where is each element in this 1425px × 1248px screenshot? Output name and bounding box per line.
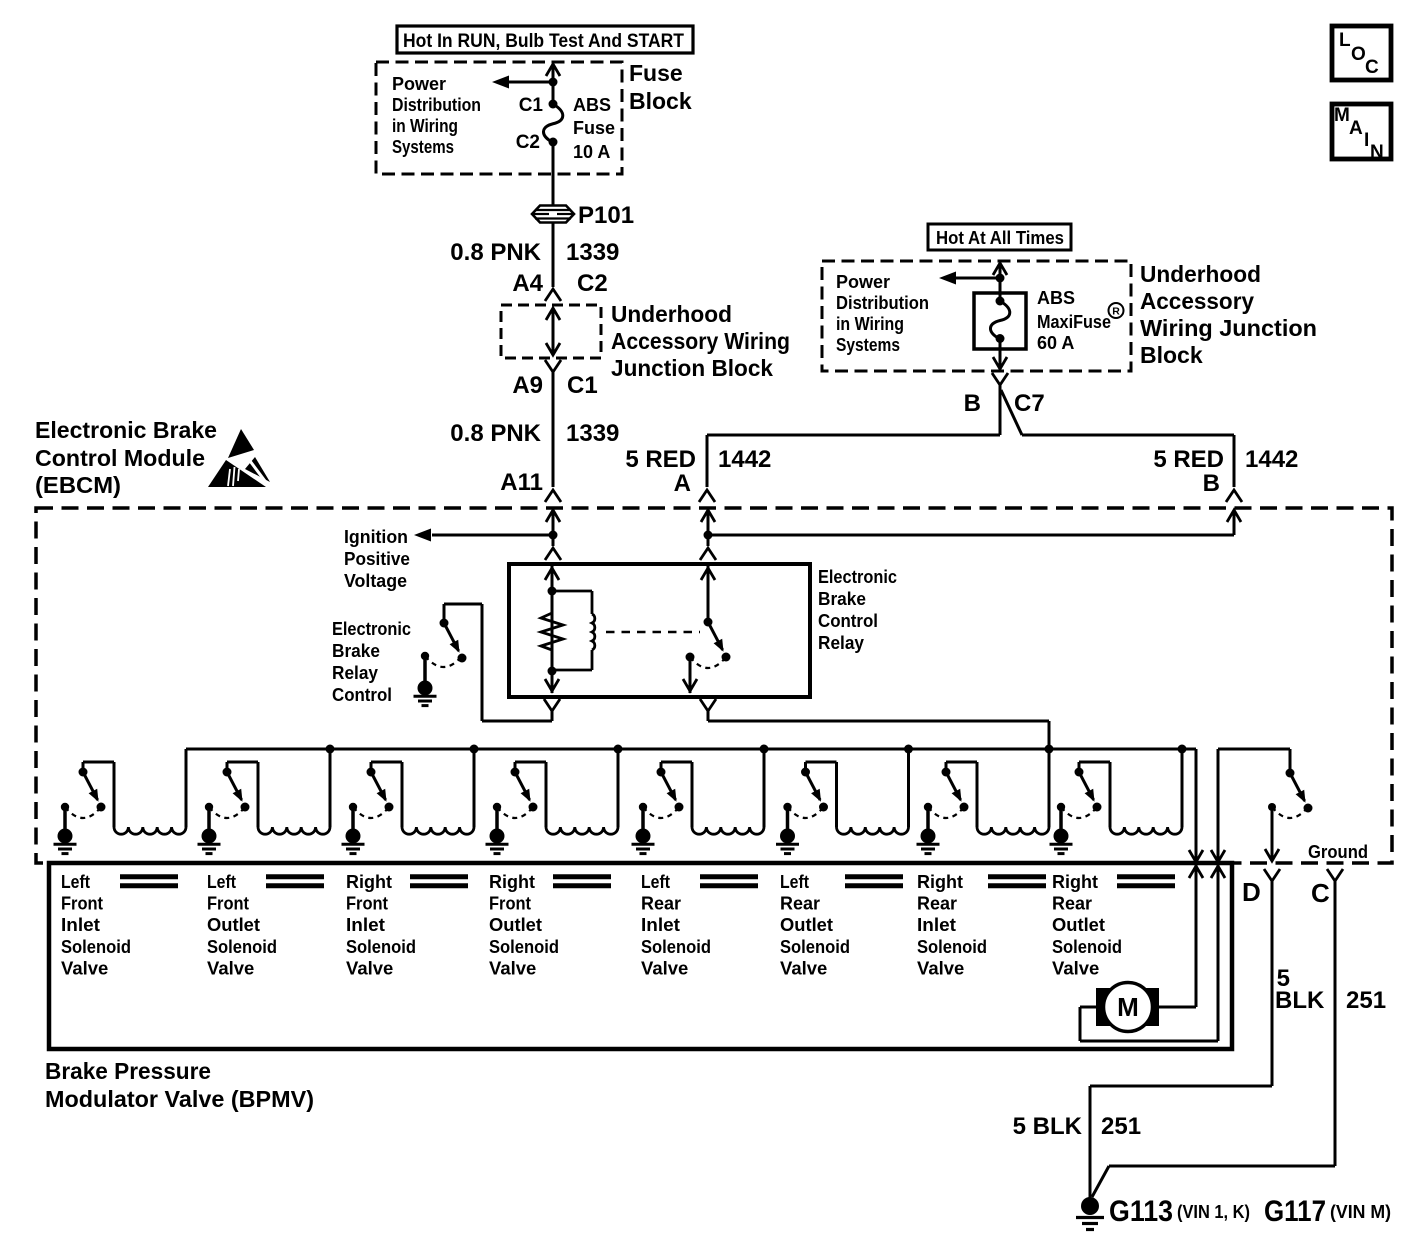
label: Underhood Accessory Wiring Junction Block — [1140, 261, 1317, 368]
wire: coil to driver switch — [661, 762, 692, 827]
svg-text:5 RED: 5 RED — [1153, 446, 1224, 473]
node: bus junction — [760, 745, 769, 754]
pin A9 / C1 labels — [512, 372, 597, 399]
solenoid valve driver: RF outlet — [486, 745, 623, 854]
svg-text:I: I — [1364, 130, 1369, 151]
svg-text:Fuse: Fuse — [629, 60, 683, 86]
svg-text:Systems: Systems — [836, 335, 900, 355]
pump motor relay switch — [1286, 769, 1295, 778]
svg-text:Relay: Relay — [332, 663, 378, 683]
solenoid coil — [546, 827, 618, 834]
node: coil top — [548, 587, 557, 596]
svg-text:Outlet: Outlet — [207, 914, 260, 935]
label: LR outlet solenoid valve — [780, 871, 850, 978]
svg-text:M: M — [1334, 105, 1350, 126]
value label: 5 RED 1442 (B) — [1153, 446, 1298, 473]
relay coil (parallel winding) — [552, 591, 595, 670]
svg-text:Rear: Rear — [917, 893, 957, 914]
driver switch — [942, 768, 951, 777]
connector: A4/C2 chevron — [545, 289, 561, 301]
dashed arc: solenoid actuation — [497, 807, 533, 818]
svg-text:Solenoid: Solenoid — [780, 936, 850, 957]
solenoid coil — [402, 827, 474, 834]
svg-text:Positive: Positive — [344, 549, 410, 569]
svg-text:Brake: Brake — [818, 589, 866, 609]
wire: coil drop — [763, 749, 766, 827]
svg-text:C1: C1 — [567, 372, 598, 399]
transistor switch: Electronic Brake Relay Control — [440, 619, 449, 628]
svg-text:N: N — [1370, 142, 1384, 163]
svg-text:A: A — [1349, 118, 1363, 139]
svg-text:Distribution: Distribution — [836, 293, 929, 313]
wire: relay coil feed — [545, 566, 559, 693]
wire: relay output to solenoid bus — [708, 711, 1049, 749]
fuse: ABS MaxiFuse 60 A — [990, 297, 1009, 344]
svg-text:Right: Right — [1052, 871, 1098, 892]
svg-text:P101: P101 — [578, 202, 634, 229]
svg-text:(VIN 1, K): (VIN 1, K) — [1177, 1202, 1250, 1222]
wire: coil to driver switch — [946, 762, 977, 827]
svg-text:M: M — [1117, 992, 1139, 1022]
svg-text:251: 251 — [1101, 1113, 1141, 1140]
label: Underhood Accessory Wiring Junction Block — [611, 301, 790, 381]
dashed arc: relay control — [425, 656, 462, 667]
ground: valve seat — [1057, 803, 1065, 811]
header box: Hot In RUN, Bulb Test And START — [397, 26, 693, 53]
hydraulic port symbol — [410, 877, 468, 886]
svg-text:ABS: ABS — [573, 95, 611, 115]
ground: valve seat — [924, 803, 932, 811]
EBCM dashed boundary box — [36, 508, 1392, 863]
node: relay output contact — [686, 653, 695, 662]
svg-text:Solenoid: Solenoid — [917, 936, 987, 957]
value label: 5 BLK 251 (C) — [1275, 965, 1386, 1014]
wire: motor leads — [1080, 1007, 1218, 1041]
svg-text:A11: A11 — [500, 469, 543, 496]
maxifuse box — [974, 293, 1026, 349]
wire: C2 to splice P101 — [552, 142, 555, 206]
wire: 0.8 PNK 1339 (junction block to EBCM A11) — [552, 372, 555, 487]
node: bus junction — [1045, 745, 1054, 754]
wire: pin D to ground G113 — [1090, 881, 1272, 1198]
svg-text:Right: Right — [346, 871, 392, 892]
wire: motor switch to pin D — [1265, 807, 1279, 861]
pin A4 / C2 labels — [512, 270, 607, 297]
label: RF outlet solenoid valve — [489, 871, 559, 978]
svg-text:Accessory: Accessory — [1140, 288, 1254, 314]
label: Power Distribution in Wiring Systems — [392, 74, 481, 157]
hydraulic port symbol — [700, 877, 758, 886]
value label: 0.8 PNK 1339 — [450, 239, 619, 266]
solenoid valve driver: LR outlet — [776, 745, 913, 854]
svg-text:Underhood: Underhood — [1140, 261, 1261, 287]
dashed arc: solenoid actuation — [788, 807, 824, 818]
pump motor M1 — [1096, 983, 1159, 1032]
wire: coil drop — [907, 749, 910, 827]
hydraulic port symbol — [845, 877, 903, 886]
svg-text:Front: Front — [346, 893, 388, 914]
dashed arc: motor switch — [1272, 807, 1308, 818]
svg-text:Inlet: Inlet — [917, 914, 956, 935]
svg-text:A9: A9 — [512, 372, 543, 399]
svg-text:Systems: Systems — [392, 137, 454, 157]
driver switch — [223, 768, 232, 777]
wire: 5 RED 1442 drop to pin B — [1233, 435, 1236, 487]
hydraulic port symbol — [553, 877, 611, 886]
connector: B/C7 chevron — [992, 373, 1008, 385]
wire: arrow to Ignition Positive Voltage — [414, 529, 553, 542]
svg-text:Outlet: Outlet — [489, 914, 542, 935]
wire: coil drop — [1048, 749, 1051, 827]
node: motor switch output — [1268, 803, 1276, 811]
dashed arc: solenoid actuation — [1061, 807, 1097, 818]
svg-text:G117: G117 — [1264, 1195, 1326, 1228]
label: Electronic Brake Control Relay — [818, 567, 897, 653]
svg-text:C: C — [1311, 878, 1330, 908]
solenoid valve driver: LF inlet — [54, 749, 187, 854]
connector below relay (output) — [700, 699, 716, 711]
wire: coil to driver switch — [515, 762, 546, 827]
wire: bus to pump motor (through BPMV case) — [1189, 749, 1203, 1007]
svg-text:Block: Block — [629, 88, 692, 114]
svg-text:Hot At All Times: Hot At All Times — [936, 228, 1064, 248]
svg-text:1442: 1442 — [1245, 446, 1298, 473]
svg-text:C2: C2 — [577, 270, 608, 297]
dashed arc: solenoid actuation — [353, 807, 389, 818]
solenoid valve driver: RR inlet — [917, 745, 1054, 854]
svg-text:Ignition: Ignition — [344, 527, 408, 547]
ground: valve seat — [639, 803, 647, 811]
solenoid valve driver: RF inlet — [342, 745, 479, 854]
solenoid valve driver: RR outlet — [1050, 745, 1187, 854]
wire: through junction block — [546, 308, 560, 355]
svg-text:Control: Control — [332, 685, 392, 705]
svg-text:Solenoid: Solenoid — [1052, 936, 1122, 957]
connector below relay (coil return) — [544, 699, 560, 711]
connector chevron above relay (left) — [545, 548, 561, 560]
wire: fuse block feed from header — [546, 64, 560, 104]
svg-text:D: D — [1242, 877, 1261, 907]
connector: pin B chevron — [1226, 490, 1242, 502]
svg-text:Front: Front — [489, 893, 531, 914]
label: Electronic Brake Relay Control — [332, 619, 411, 705]
ground: valve seat — [349, 803, 357, 811]
driver switch — [657, 768, 666, 777]
svg-text:Outlet: Outlet — [780, 914, 833, 935]
svg-text:1339: 1339 — [566, 239, 619, 266]
Underhood junction block dashed box (maxifuse) — [822, 261, 1131, 371]
dashed arc: solenoid actuation — [928, 807, 964, 818]
pin B / C7 labels — [964, 390, 1045, 417]
svg-text:Ground: Ground — [1308, 842, 1368, 862]
label: LF inlet solenoid valve — [61, 871, 131, 978]
ground G113/G117 — [1076, 1197, 1104, 1230]
wire: motor return (through BPMV case) — [1211, 749, 1290, 1041]
svg-text:BLK: BLK — [1275, 987, 1325, 1014]
driver switch — [367, 768, 376, 777]
wire: C7 split to A and B feeds — [707, 385, 1234, 435]
Underhood Accessory Wiring Junction Block (small dashed box) — [501, 305, 601, 358]
svg-text:Front: Front — [207, 893, 249, 914]
svg-text:Left: Left — [641, 871, 670, 892]
connector: pin C chevron — [1327, 869, 1343, 881]
wire: B feed into EBCM — [701, 510, 715, 546]
svg-text:Accessory Wiring: Accessory Wiring — [611, 328, 790, 354]
svg-text:251: 251 — [1346, 987, 1386, 1014]
solenoid valve driver: LR inlet — [632, 745, 769, 854]
connector: pin D chevron — [1264, 869, 1280, 881]
svg-text:Inlet: Inlet — [346, 914, 385, 935]
svg-text:Voltage: Voltage — [344, 571, 407, 591]
node: bus junction — [326, 745, 335, 754]
BPMV box: Brake Pressure Modulator Valve — [49, 863, 1232, 1049]
svg-text:1442: 1442 — [718, 446, 771, 473]
svg-text:Valve: Valve — [346, 957, 393, 978]
svg-text:Valve: Valve — [61, 957, 108, 978]
ESD static sensitive symbol — [208, 429, 271, 489]
solenoid valve driver: LF outlet — [198, 745, 335, 854]
hydraulic port symbol — [1117, 877, 1175, 886]
label: LR inlet solenoid valve — [641, 871, 711, 978]
svg-text:Control: Control — [818, 611, 878, 631]
svg-text:Hot In RUN, Bulb Test And STAR: Hot In RUN, Bulb Test And START — [403, 31, 684, 52]
solenoid coil — [1110, 827, 1182, 834]
label: Fuse Block — [629, 60, 692, 114]
wire: coil return to relay control — [444, 604, 552, 721]
solenoid coil — [692, 827, 764, 834]
svg-text:1339: 1339 — [566, 420, 619, 447]
svg-text:L: L — [1339, 30, 1351, 51]
svg-text:Left: Left — [207, 871, 236, 892]
svg-text:Inlet: Inlet — [641, 914, 680, 935]
svg-text:A: A — [674, 470, 691, 497]
dashed arc: solenoid actuation — [65, 807, 101, 818]
label: G113 (VIN 1, K) G117 (VIN M) — [1109, 1195, 1391, 1228]
wire: relay contact feed — [701, 566, 715, 622]
value label: ABS MaxiFuse 60 A — [1037, 288, 1124, 353]
dashed arc: solenoid actuation — [209, 807, 245, 818]
ground: relay control driver — [421, 652, 429, 660]
svg-text:Relay: Relay — [818, 633, 864, 653]
svg-text:0.8 PNK: 0.8 PNK — [450, 420, 541, 447]
svg-text:Valve: Valve — [207, 957, 254, 978]
svg-text:(VIN M): (VIN M) — [1330, 1202, 1391, 1222]
hydraulic port symbol — [266, 877, 324, 886]
node: bus junction — [1178, 745, 1187, 754]
svg-text:10 A: 10 A — [573, 142, 610, 162]
node: fuse feed junction — [549, 78, 558, 87]
svg-text:MaxiFuse: MaxiFuse — [1037, 312, 1111, 332]
wire: coil to driver switch — [1079, 762, 1110, 827]
node: bus junction — [614, 745, 623, 754]
node: relay switch feed junction — [704, 531, 713, 540]
label: Brake Pressure Modulator Valve (BPMV) — [45, 1058, 314, 1112]
header box: Hot At All Times — [928, 224, 1071, 250]
node: bus junction — [470, 745, 479, 754]
relay: Electronic Brake Control Relay box — [509, 564, 810, 697]
svg-text:Underhood: Underhood — [611, 301, 732, 327]
svg-text:C1: C1 — [519, 95, 544, 116]
node: bus junction — [904, 745, 913, 754]
svg-text:Electronic: Electronic — [818, 567, 897, 587]
driver switch — [801, 768, 810, 777]
svg-text:Modulator Valve (BPMV): Modulator Valve (BPMV) — [45, 1086, 314, 1112]
svg-text:Brake: Brake — [332, 641, 380, 661]
svg-text:Power: Power — [836, 272, 890, 292]
svg-text:Junction Block: Junction Block — [611, 355, 773, 381]
value label: ABS Fuse 10 A — [573, 95, 615, 162]
svg-text:Block: Block — [1140, 342, 1203, 368]
svg-text:Front: Front — [61, 893, 103, 914]
wire: maxifuse feed — [993, 263, 1007, 301]
dashed link coil to contact — [606, 631, 700, 633]
ground: valve seat — [493, 803, 501, 811]
label: LF outlet solenoid valve — [207, 871, 277, 978]
svg-text:R: R — [1112, 306, 1120, 318]
connector: pin A chevron — [699, 490, 715, 502]
label: Power Distribution in Wiring Systems — [836, 272, 929, 355]
svg-text:Electronic: Electronic — [332, 619, 411, 639]
svg-text:0.8 PNK: 0.8 PNK — [450, 239, 541, 266]
svg-text:60 A: 60 A — [1037, 333, 1074, 353]
wire: arrow to Power Distribution — [492, 76, 553, 89]
wire: coil drop — [329, 749, 332, 827]
hydraulic port symbol — [988, 877, 1046, 886]
wire: A11 feed into EBCM — [546, 510, 560, 546]
svg-text:Rear: Rear — [780, 893, 820, 914]
svg-text:G113: G113 — [1109, 1195, 1173, 1228]
svg-text:Right: Right — [917, 871, 963, 892]
wire: 5 RED 1442 drop to pin A — [706, 435, 709, 487]
svg-text:Solenoid: Solenoid — [489, 936, 559, 957]
connector chevron above relay (right) — [700, 548, 716, 560]
node: maxifuse feed junction — [996, 274, 1005, 283]
value label: 0.8 PNK 1339 — [450, 420, 619, 447]
svg-text:in Wiring: in Wiring — [836, 314, 904, 334]
ground: valve seat — [61, 803, 69, 811]
wire: 0.8 PNK 1339 (P101 to junction block) — [552, 222, 555, 287]
driver switch — [79, 768, 88, 777]
svg-text:Electronic Brake: Electronic Brake — [35, 417, 217, 443]
ground: valve seat — [783, 803, 791, 811]
wire: coil to driver switch — [227, 762, 258, 827]
svg-text:Valve: Valve — [1052, 957, 1099, 978]
svg-text:Outlet: Outlet — [1052, 914, 1105, 935]
svg-text:Right: Right — [489, 871, 535, 892]
Fuse Block dashed box — [376, 62, 622, 174]
wire: B entry to relay feed — [708, 510, 1241, 535]
wire: coil drop — [617, 749, 620, 827]
wire: coil to driver switch — [83, 762, 114, 827]
driver switch — [511, 768, 520, 777]
wire: pin C to ground G113 — [1092, 881, 1335, 1197]
svg-text:C7: C7 — [1014, 390, 1045, 417]
svg-text:B: B — [1203, 470, 1220, 497]
svg-text:O: O — [1351, 44, 1366, 65]
svg-text:ABS: ABS — [1037, 288, 1075, 308]
pin C2 of fuse — [516, 132, 558, 153]
solenoid coil — [977, 827, 1049, 834]
svg-text:5 RED: 5 RED — [625, 446, 696, 473]
pin C1 of fuse — [519, 95, 558, 116]
svg-text:Fuse: Fuse — [573, 118, 615, 138]
svg-text:C2: C2 — [516, 132, 540, 153]
wire: coil drop — [473, 749, 476, 827]
svg-text:Valve: Valve — [780, 957, 827, 978]
svg-text:A4: A4 — [512, 270, 543, 297]
solenoid coil — [114, 827, 186, 834]
wire: relay output down — [683, 657, 697, 693]
svg-text:Solenoid: Solenoid — [346, 936, 416, 957]
resistor: relay suppression resistor — [541, 613, 563, 650]
label: Ignition Positive Voltage — [344, 527, 410, 591]
svg-text:Valve: Valve — [917, 957, 964, 978]
svg-text:Distribution: Distribution — [392, 95, 481, 115]
svg-text:Rear: Rear — [1052, 893, 1092, 914]
hydraulic port symbol — [120, 877, 178, 886]
svg-text:5 BLK: 5 BLK — [1013, 1113, 1083, 1140]
svg-text:Solenoid: Solenoid — [61, 936, 131, 957]
svg-text:Left: Left — [780, 871, 809, 892]
value label: 5 RED 1442 (A) — [625, 446, 771, 473]
wire: maxifuse out through box edge — [993, 339, 1007, 370]
wire: arrow to Power Distribution — [939, 272, 1000, 285]
dashed arc: solenoid actuation — [643, 807, 679, 818]
relay contact switch — [704, 618, 713, 627]
solenoid coil — [837, 827, 909, 834]
svg-text:Control Module: Control Module — [35, 445, 205, 471]
connector: A11 chevron — [545, 490, 561, 502]
wire: solenoid supply bus — [186, 748, 1196, 751]
svg-text:in Wiring: in Wiring — [392, 116, 458, 136]
label: RF inlet solenoid valve — [346, 871, 416, 978]
fuse: ABS Fuse 10 A — [543, 104, 562, 142]
svg-text:Solenoid: Solenoid — [641, 936, 711, 957]
node: coil bottom — [548, 667, 557, 676]
svg-text:Solenoid: Solenoid — [207, 936, 277, 957]
svg-text:Valve: Valve — [641, 957, 688, 978]
svg-text:Valve: Valve — [489, 957, 536, 978]
connector: A9/C1 chevron — [545, 360, 561, 372]
svg-text:Left: Left — [61, 871, 90, 892]
node: ignition voltage junction — [549, 531, 558, 540]
svg-text:C: C — [1365, 57, 1379, 78]
splice P101 — [532, 202, 634, 229]
MAIN reference box — [1332, 104, 1391, 163]
svg-text:Inlet: Inlet — [61, 914, 100, 935]
driver switch — [1075, 768, 1084, 777]
LOC reference box — [1332, 26, 1391, 80]
solenoid coil — [258, 827, 330, 834]
svg-text:B: B — [964, 390, 981, 417]
dashed arc: relay contact — [690, 657, 726, 668]
svg-text:Wiring Junction: Wiring Junction — [1140, 315, 1317, 341]
label: RR outlet solenoid valve — [1052, 871, 1122, 978]
svg-text:Rear: Rear — [641, 893, 681, 914]
wire: coil to driver switch — [806, 762, 837, 827]
wire: coil drop — [185, 749, 188, 827]
wire: coil drop — [1181, 749, 1184, 827]
svg-text:Power: Power — [392, 74, 446, 94]
value label: 5 BLK 251 (D) — [1013, 1113, 1141, 1140]
wire: coil to driver switch — [371, 762, 402, 827]
svg-text:Brake Pressure: Brake Pressure — [45, 1058, 211, 1084]
svg-text:(EBCM): (EBCM) — [35, 472, 121, 498]
ground: valve seat — [205, 803, 213, 811]
label: RR inlet solenoid valve — [917, 871, 987, 978]
EBCM module label — [35, 417, 217, 498]
